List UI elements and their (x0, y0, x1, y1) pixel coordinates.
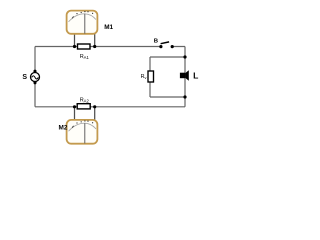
node top-left junction (73, 45, 76, 48)
svg-text:RA1: RA1 (80, 54, 90, 60)
node junction top of parallel (183, 55, 186, 58)
resistor RA1 (78, 44, 91, 49)
switch B (159, 42, 174, 48)
loudspeaker L (180, 70, 189, 80)
svg-text:M1: M1 (104, 24, 113, 31)
node junction bottom of parallel (183, 95, 186, 98)
node top-right junction (93, 45, 96, 48)
svg-text:S: S (22, 74, 27, 81)
wire right side (184, 47, 186, 107)
node bottom-right junction (93, 105, 96, 108)
wire bottom rail (35, 106, 185, 108)
svg-text:L: L (193, 70, 198, 80)
wire top rail (35, 46, 185, 48)
resistor Rv (148, 71, 154, 82)
meter M2 (67, 120, 98, 144)
source S (31, 70, 40, 85)
ammeter M2 terminal wires (75, 107, 95, 120)
wire left side (34, 47, 36, 107)
wire parallel top rail (150, 56, 185, 58)
ammeter M1 terminal wires (75, 34, 95, 47)
resistor RA2 (77, 104, 90, 109)
meter M1 (67, 11, 98, 34)
svg-text:B: B (154, 38, 158, 44)
svg-text:M2: M2 (59, 125, 68, 132)
svg-text:RA2: RA2 (80, 98, 90, 104)
wire parallel bottom rail (150, 96, 185, 98)
node bottom-left junction (73, 105, 76, 108)
wire resistor branch (149, 57, 151, 97)
